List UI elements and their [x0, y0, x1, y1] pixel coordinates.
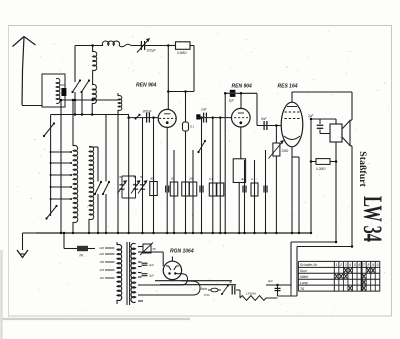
svg-text:0,5A: 0,5A [204, 293, 210, 297]
svg-text:50: 50 [171, 177, 175, 181]
svg-text:30: 30 [150, 177, 154, 181]
svg-text:7: 7 [363, 263, 365, 267]
svg-text:Kurz: Kurz [300, 269, 307, 273]
svg-text:500: 500 [60, 83, 65, 87]
svg-text:TA: TA [79, 254, 83, 258]
svg-text:2M: 2M [188, 177, 194, 181]
svg-text:240: 240 [98, 246, 104, 250]
svg-text:150: 150 [99, 260, 104, 264]
svg-text:2MΩ: 2MΩ [281, 149, 289, 153]
svg-text:220: 220 [98, 252, 104, 256]
svg-text:100pF: 100pF [147, 49, 157, 53]
svg-text:1: 1 [336, 263, 338, 267]
svg-text:4μ: 4μ [241, 177, 245, 181]
svg-text:50: 50 [153, 247, 157, 251]
svg-text:LW 34: LW 34 [358, 196, 387, 242]
svg-text:Schalter-Nr: Schalter-Nr [300, 263, 318, 267]
svg-text:0,2MΩ: 0,2MΩ [316, 167, 326, 171]
svg-text:REN 904: REN 904 [232, 84, 253, 90]
svg-text:9: 9 [372, 263, 374, 267]
svg-text:110: 110 [100, 276, 105, 280]
svg-text:3: 3 [345, 263, 347, 267]
svg-text:4: 4 [349, 263, 351, 267]
svg-text:2μF: 2μF [148, 263, 154, 267]
svg-text:2μF: 2μF [148, 274, 154, 278]
svg-text:125: 125 [99, 268, 104, 272]
svg-text:5: 5 [354, 263, 356, 267]
svg-text:50: 50 [140, 175, 143, 179]
svg-text:0,1: 0,1 [190, 125, 195, 129]
svg-text:4μF: 4μF [268, 279, 273, 283]
svg-text:6: 6 [358, 263, 360, 267]
svg-text:2: 2 [339, 263, 342, 267]
svg-text:0: 0 [377, 263, 379, 267]
svg-text:Mittel: Mittel [300, 275, 308, 279]
svg-text:RES 164: RES 164 [278, 84, 298, 90]
svg-text:0,1: 0,1 [251, 177, 255, 181]
svg-text:30: 30 [119, 175, 122, 179]
svg-text:2μF: 2μF [307, 114, 315, 118]
svg-text:RGN 1064: RGN 1064 [170, 249, 194, 255]
svg-text:0,5MΩ: 0,5MΩ [177, 51, 187, 55]
svg-text:Netz: Netz [201, 287, 208, 291]
svg-text:300pF: 300pF [143, 110, 153, 114]
svg-text:0,1: 0,1 [209, 177, 213, 181]
svg-text:REN 904: REN 904 [136, 83, 157, 89]
svg-text:135(W): 135(W) [246, 292, 256, 296]
svg-text:Staßfurt: Staßfurt [358, 151, 368, 187]
svg-text:4μ: 4μ [229, 280, 233, 284]
svg-text:8: 8 [367, 263, 369, 267]
svg-text:30: 30 [133, 175, 136, 179]
svg-text:Lang: Lang [300, 281, 308, 285]
